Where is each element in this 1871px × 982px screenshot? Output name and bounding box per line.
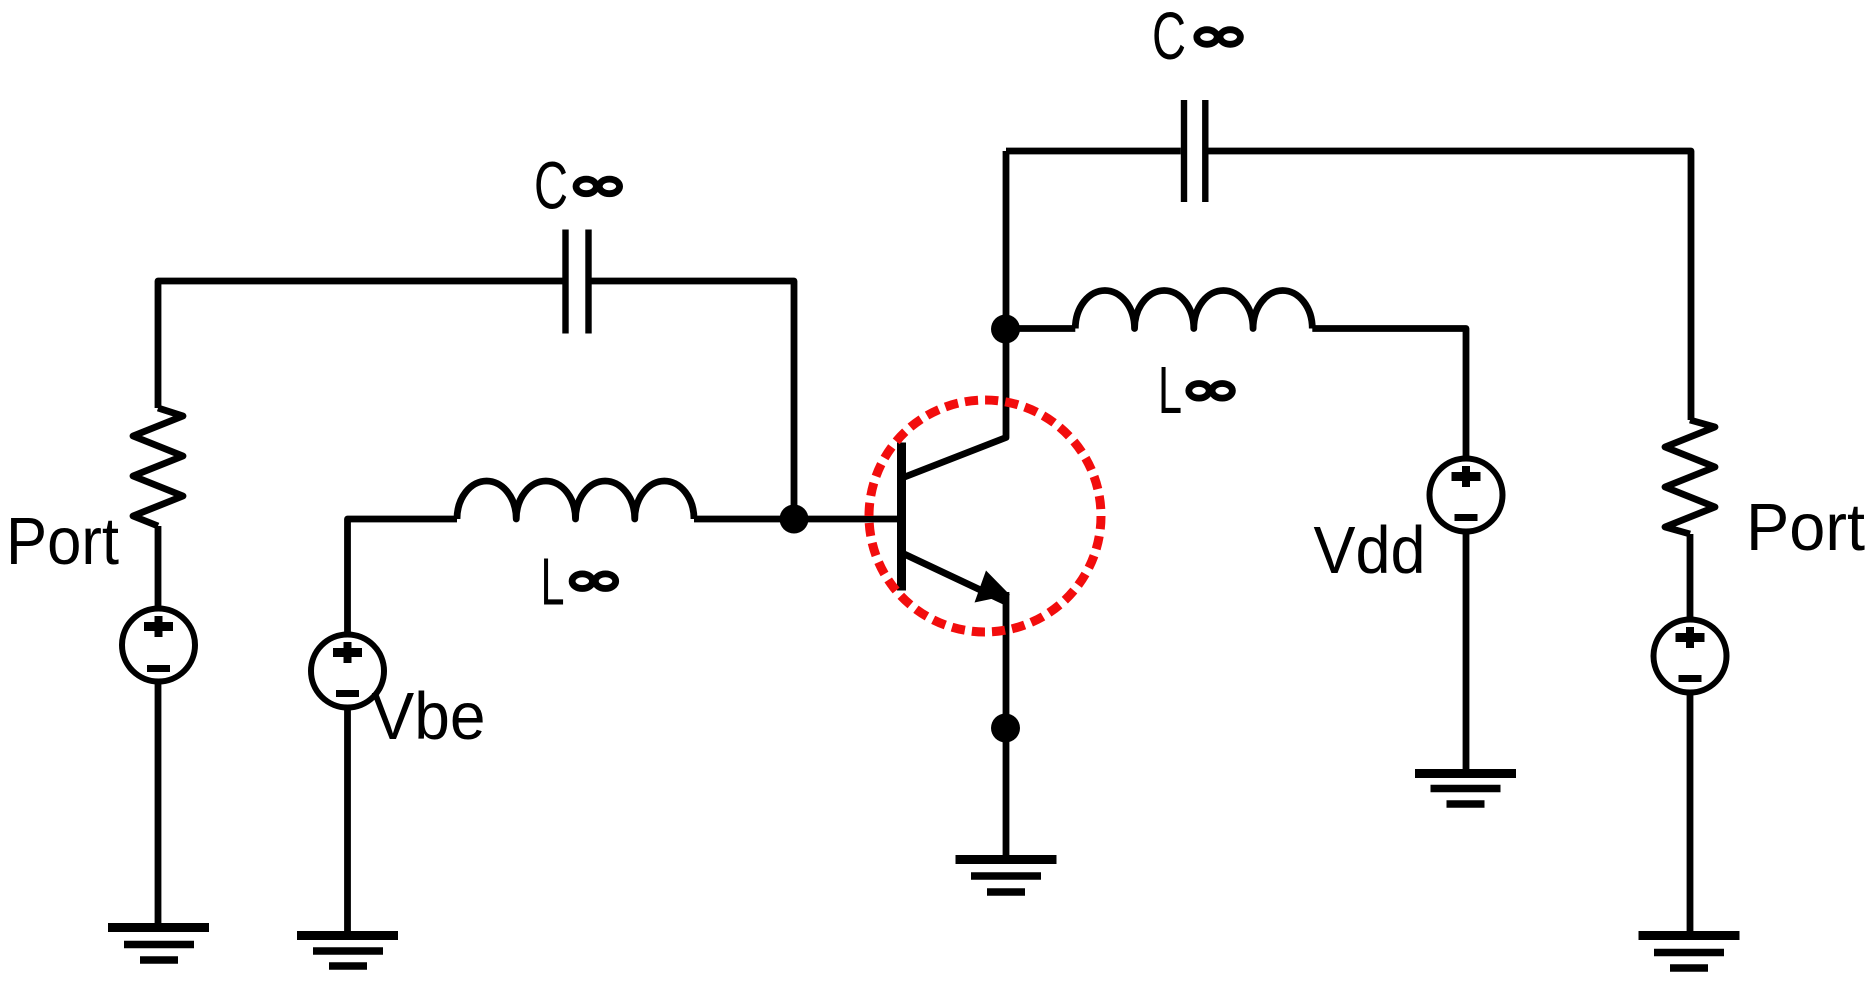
source circle (left Port) [122,609,195,682]
wire: left Port top lead to C (left) [158,281,563,408]
svg-text:C: C [534,149,568,224]
ground (Vdd) [1415,769,1516,778]
wire: C (left) right lead, down to base node [592,281,795,519]
transistor Q1 base bar [897,443,906,591]
infinity symbol (right capacitor) [1197,30,1241,45]
inductor L∞ (left) coil [457,481,694,519]
infinity symbol (right inductor) [1189,384,1233,399]
plus sign (Vbe source) [333,648,362,657]
inductor L∞ (right): wire from collector node [1006,325,1075,332]
minus sign (Vdd source) [1455,514,1478,521]
wire: source to ground (left Port) [155,682,162,924]
ground (left Port) [108,923,209,932]
source circle Vbe [311,635,384,708]
ground (emitter) [956,855,1057,864]
node: emitter junction dot [991,714,1020,743]
minus sign (left Port source) [147,665,170,672]
svg-text:Vbe: Vbe [372,679,486,754]
wire: inductor (right) to Vdd [1312,329,1466,459]
wire: Vdd source to ground [1463,532,1470,770]
svg-text:Port: Port [1746,490,1865,565]
resistor (right Port) [1665,420,1715,534]
svg-text:C: C [1152,0,1186,74]
plus sign (left Port source) [144,622,173,631]
wire: resistor to source (right Port) [1687,534,1694,620]
svg-text:L: L [1158,353,1182,428]
wire: collector node to C (right) [1006,148,1181,155]
wire: Vbe source to ground [344,708,351,932]
svg-text:Vdd: Vdd [1314,513,1426,588]
inductor L∞ (right) coil [1075,290,1312,328]
wire: C (right) to right Port top [1209,151,1692,420]
svg-text:L: L [541,544,565,619]
node: collector junction dot [991,315,1020,344]
svg-text:Port: Port [6,504,119,579]
wire: resistor to source (left Port) [155,526,162,609]
infinity symbol (left inductor) [572,574,616,589]
source circle Vdd [1430,459,1503,532]
transistor Q1 collector (diagonal + vertical to top) [902,151,1006,478]
wire: Vbe top lead to inductor (left) [348,519,458,633]
red dashed circle (transistor highlight) [869,400,1101,632]
infinity symbol (left capacitor) [576,179,620,194]
minus sign (Vbe source) [336,690,359,697]
transistor Q1 emitter arrow [975,571,1011,603]
transistor Q1 emitter (diagonal + vertical down) [902,553,1006,602]
wire: inductor (left) to base node [694,516,898,523]
ground (Vbe) [297,931,398,940]
wire: source to ground (right Port) [1687,693,1694,932]
source circle (right Port) [1654,620,1727,693]
plus sign (right Port source) [1676,633,1705,642]
capacitor C∞ (left) plates [566,230,589,334]
resistor (left Port) [133,408,183,526]
minus sign (right Port source) [1679,675,1702,682]
node: base junction dot [780,505,809,534]
capacitor C∞ (right) plates [1184,100,1205,202]
plus sign (Vdd source) [1452,472,1481,481]
ground (right Port) [1639,931,1740,940]
